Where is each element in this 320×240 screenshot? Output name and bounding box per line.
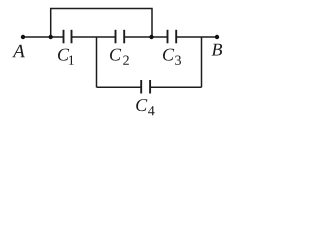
wire: right vertical of bottom branch <box>201 37 203 87</box>
wire: left vertical of bottom branch <box>96 37 98 87</box>
wire: C1 right plate to C2 left plate <box>72 36 115 38</box>
wire: C2 right plate to C3 left plate <box>125 36 167 38</box>
junction dot 1 (top branch left) <box>49 35 53 39</box>
label node B <box>212 44 222 56</box>
node A terminal dot <box>21 35 25 39</box>
label C4 <box>136 99 147 111</box>
wire: main from node A to C1 left plate <box>23 36 63 38</box>
capacitor C2 <box>116 30 125 44</box>
label C1 <box>58 49 69 61</box>
label C3 <box>163 49 174 61</box>
wire: bottom left segment to C4 <box>97 86 141 88</box>
label C2 <box>110 49 121 61</box>
capacitor C3 <box>168 30 177 44</box>
capacitor C1 <box>64 30 72 44</box>
node B terminal dot <box>215 35 219 39</box>
junction dot 2 (top branch right) <box>149 35 153 39</box>
wire: bottom right segment from C4 <box>151 86 202 88</box>
capacitor C4 <box>141 80 150 94</box>
label node A <box>12 45 25 58</box>
wire: top bypass from junction 1 up, across, down to junction 2 <box>51 9 152 38</box>
wire: C3 right plate to node B <box>177 36 217 38</box>
